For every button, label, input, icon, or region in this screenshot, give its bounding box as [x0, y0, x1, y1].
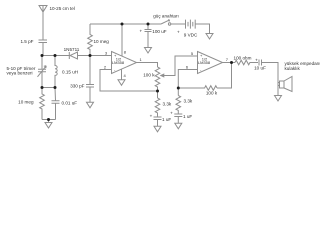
op-amp U1b [198, 52, 223, 74]
diode D1 1N5711 [69, 52, 77, 59]
capacitor C1 1.5 pF [39, 40, 48, 56]
wire bottom rail [42, 120, 56, 123]
capacitor C6 1 uF [154, 117, 162, 126]
capacitor C7 1 uF [174, 114, 182, 123]
wire pin 4 to ground [121, 69, 123, 80]
wire antenna to C1 [42, 12, 44, 40]
wire node row 2 [42, 87, 55, 89]
antenna [39, 6, 47, 13]
wire switch to battery [171, 23, 186, 25]
svg-text:10 meg: 10 meg [94, 39, 110, 44]
node G [121, 23, 124, 26]
svg-text:+: + [255, 57, 258, 62]
svg-text:LM358: LM358 [198, 60, 211, 65]
node K [230, 61, 233, 64]
svg-text:1N5711: 1N5711 [64, 47, 80, 52]
capacitor C5 100 uF [145, 24, 152, 48]
svg-text:330 pF: 330 pF [70, 83, 84, 88]
battery B1 9 VDC [186, 20, 196, 29]
inductor L1 0.15 uH [55, 56, 57, 88]
node D [41, 86, 44, 89]
ground [275, 96, 282, 102]
resistor R1 10 meg [40, 88, 45, 120]
capacitor C4 330 pF [86, 56, 94, 103]
ground [175, 123, 182, 129]
svg-text:güç anahtarı: güç anahtarı [153, 13, 179, 18]
wire pin 8 [121, 24, 123, 56]
svg-text:3.3k: 3.3k [163, 101, 172, 106]
node C [89, 54, 92, 57]
wire node row 1 [42, 55, 69, 57]
potentiometer R3 100 k [155, 67, 160, 91]
svg-text:100 k: 100 k [206, 90, 218, 95]
svg-text:1.5 pF: 1.5 pF [20, 39, 33, 44]
node F [47, 118, 50, 121]
op-amp U1a [112, 52, 137, 74]
wire to speaker [262, 63, 279, 96]
switch S1 [161, 20, 170, 24]
svg-text:10 meg: 10 meg [18, 100, 34, 105]
capacitor C3 0.01 uF [52, 88, 60, 120]
wire output pin 7 [223, 62, 236, 64]
svg-text:0.15 uH: 0.15 uH [62, 70, 78, 75]
svg-text:LM358: LM358 [112, 60, 125, 65]
node A [41, 54, 44, 57]
resistor R7 100 ohm [235, 60, 258, 65]
svg-text:10 uF: 10 uF [254, 66, 266, 71]
svg-text:+: + [150, 113, 153, 118]
resistor R4 3.3k [155, 98, 160, 117]
wire pin 2 feedback [100, 70, 158, 92]
wire diode to node [78, 55, 112, 57]
svg-text:3.3k: 3.3k [184, 98, 193, 103]
ground [154, 126, 161, 132]
node J [177, 87, 180, 90]
svg-text:1 uF: 1 uF [162, 117, 171, 122]
node I [156, 90, 159, 93]
node E [54, 86, 57, 89]
resistor R2 10 meg [88, 24, 93, 56]
wiper arrow [161, 74, 164, 77]
wiper wire [163, 56, 198, 76]
node H [147, 23, 150, 26]
wire pot bottom to R4 [157, 91, 159, 98]
svg-text:+: + [139, 28, 142, 33]
svg-text:9 VDC: 9 VDC [184, 32, 198, 37]
ground [45, 123, 52, 129]
trimmer capacitor C2 [38, 56, 46, 88]
svg-text:+: + [177, 29, 180, 34]
svg-text:1 uF: 1 uF [183, 114, 192, 119]
svg-text:veya benzeri: veya benzeri [7, 71, 33, 76]
resistor R5 100 k [178, 86, 217, 91]
ground [118, 80, 125, 86]
ground [87, 102, 94, 108]
resistor R6 3.3k [176, 96, 181, 114]
wire battery to ground [195, 24, 209, 34]
capacitor C8 10 uF [259, 60, 262, 66]
feedback wire [217, 63, 232, 89]
svg-text:100 uF: 100 uF [152, 29, 166, 34]
ground [206, 34, 213, 40]
svg-text:0.01 uF: 0.01 uF [62, 100, 78, 105]
node B [54, 54, 57, 57]
wire top rail [90, 23, 161, 25]
junction dots [41, 23, 234, 122]
svg-text:+: + [170, 110, 173, 115]
svg-text:10-25 cm tel: 10-25 cm tel [50, 6, 75, 11]
wire pin6 node to R6 [177, 88, 179, 96]
svg-text:100 ohm: 100 ohm [234, 55, 252, 60]
wire pin 6 [178, 70, 197, 89]
trimmer arrow [38, 66, 47, 77]
svg-text:100 k: 100 k [143, 73, 155, 78]
speaker LS1 [278, 83, 280, 86]
wire output pin 1 [137, 63, 158, 68]
ground [145, 48, 152, 54]
svg-text:kulaklık: kulaklık [285, 66, 301, 71]
